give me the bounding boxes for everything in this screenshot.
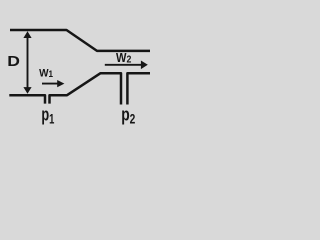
svg-text:W2: W2 — [116, 50, 131, 65]
svg-text:D: D — [7, 53, 20, 70]
svg-text:W1: W1 — [39, 67, 53, 80]
